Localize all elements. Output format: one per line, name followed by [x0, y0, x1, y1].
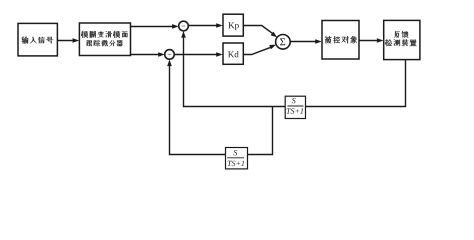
label text 检测装置	[385, 39, 416, 46]
block controlled plant box	[322, 21, 359, 60]
wire plant to feedback detector	[359, 38, 384, 43]
wire right filter output up into S1	[181, 31, 285, 107]
block input-signal box	[18, 23, 57, 56]
wire sigma to plant	[290, 39, 322, 44]
label Kp	[228, 22, 238, 30]
label S/(TS+1) bottom	[227, 150, 244, 166]
wire branch down to bottom filter	[248, 107, 273, 155]
label text 模糊变滑模面	[81, 31, 127, 38]
label text 反馈	[394, 31, 408, 38]
wire S1 to Kp	[188, 23, 223, 28]
label text 输入信号	[22, 37, 54, 44]
block fuzzy variable sliding-mode surface tracking differentiator box	[79, 23, 130, 56]
wire feedback detector down to right filter	[306, 60, 406, 107]
gain block Kd box	[223, 43, 243, 64]
summing junction S2	[165, 50, 175, 60]
label Kd	[228, 51, 239, 57]
filter block S/(TS+1) right box	[285, 96, 305, 118]
wire input signal to differentiator	[57, 38, 79, 43]
summing junction S1	[179, 21, 189, 31]
wire S2 to Kd	[174, 52, 223, 57]
summing junction sigma	[276, 35, 291, 50]
gain block Kp box	[223, 14, 243, 36]
wire differentiator bottom output to summing junction S2	[131, 52, 165, 57]
block feedback detection device box	[384, 20, 420, 59]
label text 被控对象	[325, 36, 357, 43]
filter block S/(TS+1) bottom box	[226, 148, 248, 169]
wire Kp to sigma	[243, 26, 277, 38]
wire bottom filter output up into S2	[167, 60, 225, 155]
label S/(TS+1) right	[287, 98, 304, 114]
label text 跟踪微分器	[87, 40, 123, 46]
wire differentiator top output to summing junction S1	[131, 24, 179, 29]
wire Kd to sigma	[243, 45, 276, 55]
